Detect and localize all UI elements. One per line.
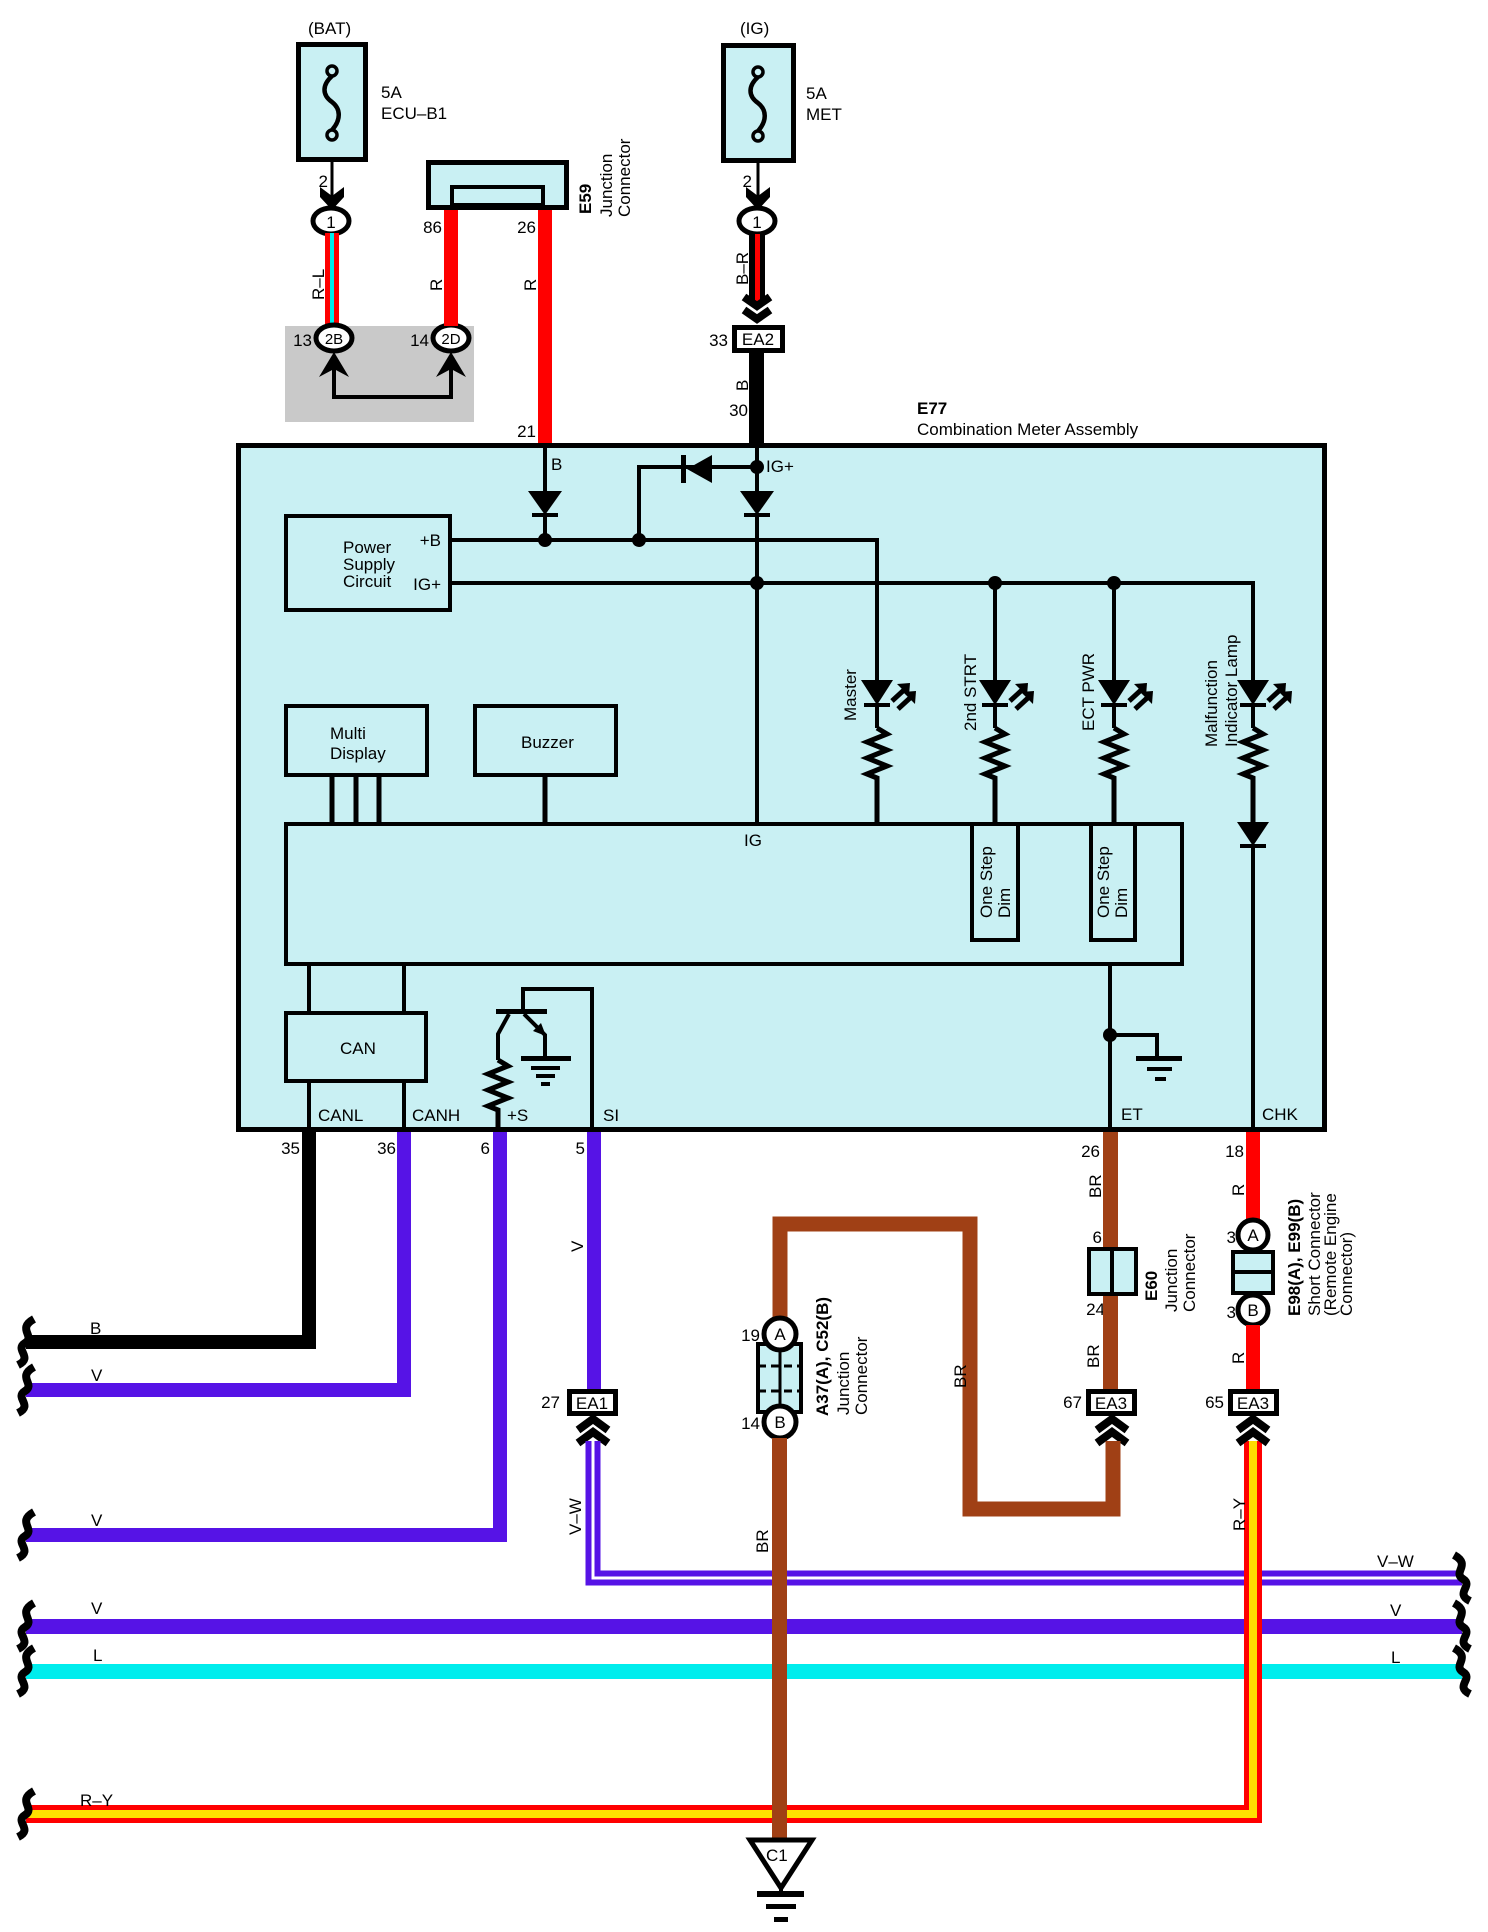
- svg-text:6: 6: [481, 1139, 490, 1158]
- svg-text:R: R: [427, 279, 446, 291]
- svg-text:R–Y: R–Y: [80, 1791, 113, 1810]
- svg-text:V–W: V–W: [566, 1498, 585, 1535]
- svg-text:1: 1: [326, 213, 335, 232]
- svg-text:V: V: [91, 1366, 103, 1385]
- svg-text:Junction: Junction: [1162, 1249, 1181, 1312]
- svg-text:C1: C1: [766, 1846, 788, 1865]
- svg-text:A37(A), C52(B): A37(A), C52(B): [813, 1297, 832, 1416]
- svg-text:Multi: Multi: [330, 724, 366, 743]
- svg-text:B: B: [551, 455, 562, 474]
- svg-text:Dim: Dim: [1112, 888, 1131, 918]
- svg-text:ECT PWR: ECT PWR: [1079, 653, 1098, 731]
- svg-text:(IG): (IG): [740, 19, 769, 38]
- svg-text:ET: ET: [1121, 1105, 1143, 1124]
- svg-text:30: 30: [729, 401, 748, 420]
- svg-text:+B: +B: [420, 531, 441, 550]
- svg-text:24: 24: [1086, 1300, 1105, 1319]
- svg-text:V–W: V–W: [1377, 1552, 1414, 1571]
- svg-text:Junction: Junction: [834, 1352, 853, 1415]
- svg-text:Dim: Dim: [995, 888, 1014, 918]
- svg-text:B: B: [733, 380, 752, 391]
- svg-text:CANH: CANH: [412, 1106, 460, 1125]
- svg-text:IG+: IG+: [413, 575, 441, 594]
- svg-text:67: 67: [1063, 1393, 1082, 1412]
- svg-text:Connector: Connector: [1180, 1233, 1199, 1312]
- svg-text:26: 26: [517, 218, 536, 237]
- svg-text:2D: 2D: [441, 331, 460, 348]
- svg-text:5A: 5A: [806, 84, 827, 103]
- svg-text:R: R: [1229, 1184, 1248, 1196]
- svg-text:26: 26: [1081, 1142, 1100, 1161]
- svg-text:Master: Master: [841, 669, 860, 721]
- svg-text:Junction: Junction: [597, 154, 616, 217]
- svg-text:1: 1: [752, 213, 761, 232]
- svg-text:One Step: One Step: [1094, 846, 1113, 918]
- svg-text:BR: BR: [951, 1364, 970, 1388]
- svg-text:V: V: [91, 1511, 103, 1530]
- svg-text:MET: MET: [806, 105, 842, 124]
- svg-text:36: 36: [377, 1139, 396, 1158]
- svg-text:BR: BR: [1086, 1174, 1105, 1198]
- svg-text:R: R: [521, 279, 540, 291]
- svg-text:A: A: [1247, 1226, 1259, 1245]
- svg-text:2: 2: [319, 172, 328, 191]
- svg-text:R: R: [1229, 1352, 1248, 1364]
- svg-text:E77: E77: [917, 399, 947, 418]
- svg-text:Combination Meter Assembly: Combination Meter Assembly: [917, 420, 1139, 439]
- svg-text:B–R: B–R: [733, 252, 752, 285]
- svg-text:B: B: [90, 1319, 101, 1338]
- svg-text:33: 33: [709, 331, 728, 350]
- svg-text:27: 27: [541, 1393, 560, 1412]
- svg-text:EA3: EA3: [1237, 1394, 1269, 1413]
- svg-text:ECU–B1: ECU–B1: [381, 104, 447, 123]
- svg-text:CAN: CAN: [340, 1039, 376, 1058]
- svg-text:6: 6: [1093, 1228, 1102, 1247]
- svg-text:Connector): Connector): [1337, 1232, 1356, 1316]
- svg-text:Connector: Connector: [852, 1336, 871, 1415]
- svg-text:L: L: [93, 1646, 102, 1665]
- svg-text:R–L: R–L: [309, 269, 328, 300]
- svg-text:14: 14: [410, 331, 429, 350]
- svg-text:BR: BR: [753, 1529, 772, 1553]
- svg-text:E98(A), E99(B): E98(A), E99(B): [1285, 1199, 1304, 1316]
- svg-text:3: 3: [1227, 1303, 1236, 1322]
- svg-text:35: 35: [281, 1139, 300, 1158]
- svg-text:Malfunction: Malfunction: [1202, 660, 1221, 747]
- svg-text:CANL: CANL: [318, 1106, 363, 1125]
- svg-text:18: 18: [1225, 1142, 1244, 1161]
- svg-text:EA1: EA1: [576, 1394, 608, 1413]
- svg-text:V: V: [568, 1240, 587, 1252]
- svg-text:IG+: IG+: [766, 457, 794, 476]
- svg-text:2B: 2B: [325, 331, 343, 348]
- svg-text:2nd STRT: 2nd STRT: [961, 654, 980, 731]
- svg-text:R–Y: R–Y: [1230, 1498, 1249, 1531]
- svg-text:BR: BR: [1084, 1344, 1103, 1368]
- svg-text:21: 21: [517, 422, 536, 441]
- svg-text:EA2: EA2: [742, 330, 774, 349]
- svg-text:Display: Display: [330, 744, 386, 763]
- svg-text:5A: 5A: [381, 83, 402, 102]
- svg-text:14: 14: [741, 1414, 760, 1433]
- svg-text:One Step: One Step: [977, 846, 996, 918]
- svg-text:Buzzer: Buzzer: [521, 733, 574, 752]
- svg-text:86: 86: [423, 218, 442, 237]
- svg-text:E59: E59: [576, 184, 595, 214]
- svg-text:+S: +S: [507, 1106, 528, 1125]
- svg-text:L: L: [1391, 1648, 1400, 1667]
- svg-text:B: B: [774, 1413, 785, 1432]
- svg-text:Connector: Connector: [615, 138, 634, 217]
- svg-text:SI: SI: [603, 1106, 619, 1125]
- svg-text:Circuit: Circuit: [343, 572, 391, 591]
- svg-text:E60: E60: [1142, 1271, 1161, 1301]
- svg-text:V: V: [1390, 1601, 1402, 1620]
- svg-text:B: B: [1247, 1301, 1258, 1320]
- svg-text:CHK: CHK: [1262, 1105, 1299, 1124]
- svg-text:3: 3: [1227, 1228, 1236, 1247]
- svg-text:EA3: EA3: [1095, 1394, 1127, 1413]
- svg-text:65: 65: [1205, 1393, 1224, 1412]
- svg-text:13: 13: [293, 331, 312, 350]
- svg-text:V: V: [91, 1599, 103, 1618]
- svg-text:(BAT): (BAT): [308, 19, 351, 38]
- svg-text:IG: IG: [744, 831, 762, 850]
- svg-text:5: 5: [576, 1139, 585, 1158]
- svg-text:Indicator Lamp: Indicator Lamp: [1222, 635, 1241, 747]
- svg-text:A: A: [774, 1325, 786, 1344]
- svg-text:2: 2: [743, 172, 752, 191]
